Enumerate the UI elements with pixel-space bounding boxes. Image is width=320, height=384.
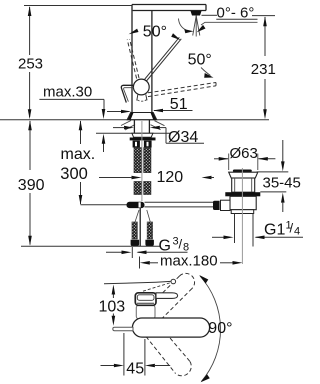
svg-text:max.180: max.180 [160,253,218,270]
svg-text:max.: max. [61,146,96,163]
svg-text:45: 45 [126,361,144,378]
svg-text:50°: 50° [188,52,212,69]
svg-text:390: 390 [18,177,45,194]
svg-text:max.30: max.30 [43,84,92,101]
svg-text:103: 103 [99,299,126,316]
svg-text:90°: 90° [208,320,232,337]
svg-text:/: / [290,221,294,236]
svg-text:4: 4 [294,226,300,238]
svg-text:G1: G1 [264,222,285,239]
svg-text:35-45: 35-45 [263,175,301,192]
svg-text:231: 231 [251,61,276,78]
svg-text:Ø63: Ø63 [230,145,258,162]
svg-text:253: 253 [18,56,43,73]
svg-text:Ø34: Ø34 [168,129,198,146]
svg-text:300: 300 [60,165,88,183]
svg-text:/: / [179,237,183,252]
svg-text:120: 120 [157,169,184,186]
svg-text:50°: 50° [143,23,167,40]
